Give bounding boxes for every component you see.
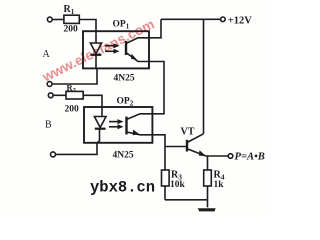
input terminal B minus: [51, 152, 56, 157]
light arrow 3: [109, 119, 124, 124]
phototransistor PT1 base bar: [125, 41, 127, 55]
transistor VT collector: [187, 134, 204, 143]
resistor R2 body: [66, 91, 83, 99]
input terminal B plus: [48, 93, 53, 98]
input terminal A plus: [47, 17, 52, 22]
+12V terminal: [221, 17, 226, 22]
wire LED D2 cathode return: [56, 143, 97, 155]
LED D2 anode lead: [101, 107, 103, 117]
svg-text:R1: R1: [64, 4, 75, 16]
wire R4 to ground rail: [207, 186, 209, 200]
resistor R4 body: [204, 170, 212, 186]
light arrow 4: [109, 124, 124, 129]
wire terminal to R2: [53, 94, 66, 96]
optocoupler OP1 box: [83, 31, 149, 68]
wire OP2 emitter to node and down to R3: [152, 135, 165, 170]
wire base of VT: [165, 146, 187, 148]
svg-text:A: A: [43, 49, 51, 60]
input terminal A minus: [47, 82, 52, 87]
wire R1 to optocoupler top: [79, 20, 96, 32]
phototransistor PT2 emitter: [127, 132, 153, 135]
phototransistor PT2 collector: [127, 114, 153, 120]
output terminal P: [228, 154, 233, 159]
svg-text:1k: 1k: [214, 180, 225, 190]
+12V rail wire: [161, 18, 221, 20]
wire emitter node down to R4: [207, 156, 209, 170]
svg-text:4N25: 4N25: [113, 151, 134, 161]
phototransistor PT2 base bar: [125, 117, 127, 135]
PT1 emitter arrowhead: [131, 54, 138, 60]
svg-text:ybx8.cn: ybx8.cn: [90, 179, 155, 197]
wire R2 to optocoupler 2 top: [83, 95, 102, 107]
wire OP1 emitter down to OP2 collector: [149, 62, 164, 114]
ground symbol: [198, 208, 216, 211]
wire terminal to R1: [52, 19, 64, 21]
wire LED D1 cathode return: [52, 68, 97, 84]
svg-text:OP1: OP1: [113, 20, 130, 31]
wire R3 to ground rail: [164, 186, 166, 200]
LED D2 cathode lead: [97, 129, 100, 143]
phototransistor PT1 collector: [126, 38, 149, 44]
svg-text:10k: 10k: [170, 180, 186, 190]
watermark elecfans: [39, 16, 157, 85]
svg-text:+12V: +12V: [228, 15, 252, 26]
wire emitter node to output terminal: [206, 155, 228, 157]
LED D2 cathode bar: [95, 128, 106, 130]
svg-text:200: 200: [64, 25, 79, 35]
resistor R3 body: [162, 170, 170, 186]
svg-text:OP2: OP2: [117, 97, 134, 108]
ground rail wire: [165, 199, 208, 201]
svg-text:P=A•B: P=A•B: [235, 152, 265, 163]
LED D1 cathode bar: [91, 54, 102, 56]
PT2 emitter arrowhead: [133, 130, 140, 136]
LED D1 cathode lead: [95, 55, 97, 69]
optocoupler OP2 box: [84, 107, 152, 143]
phototransistor PT1 emitter: [126, 53, 149, 62]
LED D1 triangle: [90, 43, 101, 54]
svg-text:4N25: 4N25: [114, 74, 135, 84]
svg-text:VT: VT: [181, 127, 195, 138]
light arrow 2: [105, 49, 120, 54]
transistor VT emitter: [187, 149, 206, 156]
transistor VT base bar: [186, 140, 188, 152]
wire OP1 collector to +12V rail: [149, 19, 161, 38]
resistor R1 body: [64, 15, 79, 23]
svg-text:200: 200: [65, 105, 80, 115]
LED D1 anode lead: [95, 31, 97, 43]
VT emitter arrowhead: [199, 150, 207, 156]
light arrow 1: [105, 43, 120, 48]
LED D2 triangle: [94, 117, 106, 128]
ground stem: [207, 200, 209, 208]
wire +12V rail down to VT collector: [203, 19, 205, 134]
svg-text:B: B: [45, 120, 52, 131]
